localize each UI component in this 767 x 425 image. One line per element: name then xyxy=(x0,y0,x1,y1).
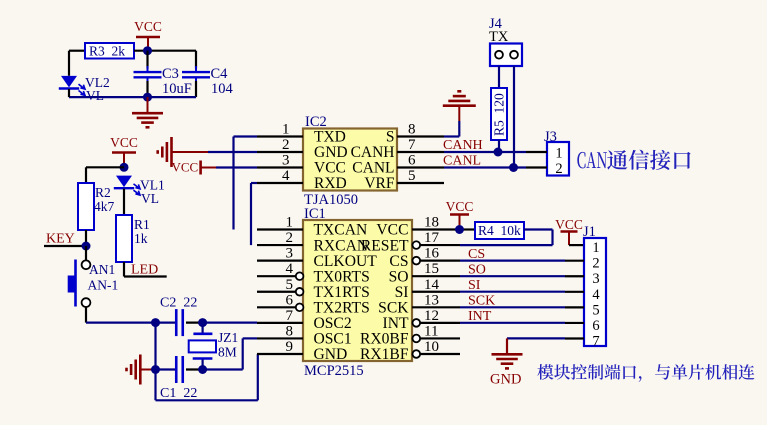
svg-text:INT: INT xyxy=(383,315,409,332)
svg-text:TX2RTS: TX2RTS xyxy=(314,300,370,317)
junction node VL1-VCC xyxy=(120,163,129,172)
wire SI xyxy=(460,291,565,293)
svg-text:RX1BF: RX1BF xyxy=(360,346,409,363)
svg-text:4: 4 xyxy=(286,261,294,277)
ground (top-left) xyxy=(147,97,149,113)
junction node XGND-top xyxy=(151,318,160,327)
svg-text:VCC: VCC xyxy=(172,160,199,175)
svg-text:10uF: 10uF xyxy=(162,81,192,97)
capacitor C2 xyxy=(160,296,197,337)
svg-text:15: 15 xyxy=(424,261,439,277)
wire pin18 xyxy=(460,228,475,230)
svg-text:VCC: VCC xyxy=(555,217,583,232)
svg-text:R1: R1 xyxy=(134,217,150,232)
svg-text:CANH: CANH xyxy=(351,144,395,161)
junction node OSC1 xyxy=(198,365,207,374)
junction node VCC1 xyxy=(143,46,152,55)
wire xyxy=(68,89,70,97)
svg-text:GND: GND xyxy=(490,372,521,388)
power port VCC (IC2) xyxy=(172,160,217,175)
wire xyxy=(216,166,257,168)
wire xyxy=(186,368,203,370)
svg-text:CANL: CANL xyxy=(443,154,481,169)
svg-text:1: 1 xyxy=(555,146,562,162)
wire J1-7 to gnd xyxy=(507,337,565,339)
wire xyxy=(203,322,257,324)
svg-text:6: 6 xyxy=(408,153,416,169)
svg-text:OSC1: OSC1 xyxy=(314,331,352,348)
svg-text:R2: R2 xyxy=(95,185,111,200)
svg-text:IC1: IC1 xyxy=(304,206,326,222)
svg-text:5: 5 xyxy=(286,277,294,293)
wire xyxy=(498,66,500,88)
svg-text:TXD: TXD xyxy=(314,129,346,146)
wire xyxy=(195,51,197,69)
svg-text:C2 22: C2 22 xyxy=(160,296,197,311)
svg-text:4: 4 xyxy=(282,168,290,184)
wire xyxy=(186,322,203,324)
svg-text:1: 1 xyxy=(282,122,290,138)
svg-text:4k7: 4k7 xyxy=(94,199,115,214)
label CAN-interface xyxy=(577,150,690,170)
svg-text:KEY: KEY xyxy=(46,232,75,247)
svg-text:8: 8 xyxy=(408,122,416,138)
svg-text:OSC2: OSC2 xyxy=(314,315,352,332)
svg-text:C4: C4 xyxy=(211,66,229,82)
svg-text:RXD: RXD xyxy=(314,175,347,192)
junction node GND1 xyxy=(143,93,152,102)
svg-text:SO: SO xyxy=(389,268,409,285)
svg-text:7: 7 xyxy=(592,333,599,349)
svg-text:2: 2 xyxy=(282,137,290,153)
wire SO xyxy=(460,275,565,277)
junction node OSC2 xyxy=(198,318,207,327)
svg-text:VCC: VCC xyxy=(376,222,408,239)
wire CS xyxy=(460,260,565,262)
svg-text:S: S xyxy=(386,129,395,146)
ground (crystal) xyxy=(140,369,155,371)
wire xyxy=(195,81,197,97)
resistor R2 xyxy=(78,183,115,230)
wire pin8 xyxy=(444,135,459,137)
svg-text:R3 2k: R3 2k xyxy=(89,44,125,59)
svg-text:10: 10 xyxy=(424,339,439,355)
IC1 pins and numbers xyxy=(257,228,303,230)
svg-text:14: 14 xyxy=(424,277,440,293)
wire INT xyxy=(460,322,565,324)
wire xyxy=(208,151,257,153)
wire xyxy=(86,322,176,324)
svg-text:SCK: SCK xyxy=(378,300,409,317)
svg-text:CANL: CANL xyxy=(352,160,394,177)
svg-text:MCP2515: MCP2515 xyxy=(304,363,364,379)
IC2 pins and numbers xyxy=(257,135,303,137)
svg-text:1: 1 xyxy=(286,215,294,231)
junction node VCC-18 xyxy=(455,225,464,234)
wire CANH xyxy=(444,151,526,153)
wire xyxy=(156,368,177,370)
svg-text:6: 6 xyxy=(286,292,294,308)
junction node XGND-bot xyxy=(151,365,160,374)
ground (IC2 GND pin) xyxy=(172,151,209,153)
svg-text:2: 2 xyxy=(286,230,294,246)
connector J1 xyxy=(565,224,606,349)
junction node CANH xyxy=(494,148,503,157)
wire xyxy=(154,323,156,401)
svg-text:5: 5 xyxy=(592,302,599,318)
svg-text:4: 4 xyxy=(592,287,600,303)
wire xyxy=(146,81,148,97)
wire xyxy=(69,50,85,52)
svg-text:IC2: IC2 xyxy=(305,114,327,130)
resistor R3 xyxy=(85,43,134,59)
svg-text:RX0BF: RX0BF xyxy=(360,331,409,348)
wire xyxy=(203,368,243,370)
connector J4 xyxy=(489,16,522,66)
svg-text:1: 1 xyxy=(592,240,599,256)
svg-text:VCC: VCC xyxy=(134,19,162,34)
svg-text:SI: SI xyxy=(395,284,409,301)
svg-text:7: 7 xyxy=(286,308,294,324)
svg-text:18: 18 xyxy=(424,215,439,231)
wire xyxy=(123,262,125,277)
svg-text:2: 2 xyxy=(592,256,599,272)
svg-text:C1 22: C1 22 xyxy=(160,386,197,401)
svg-text:AN1: AN1 xyxy=(89,262,115,277)
svg-text:17: 17 xyxy=(424,230,440,246)
wire xyxy=(134,50,196,52)
wire xyxy=(86,166,124,168)
junction node KEY xyxy=(82,242,91,251)
svg-text:JZ1: JZ1 xyxy=(218,330,238,345)
svg-text:VCC: VCC xyxy=(110,135,138,150)
svg-text:LED: LED xyxy=(131,263,158,278)
svg-text:5: 5 xyxy=(408,168,416,184)
resistor R1 xyxy=(116,215,150,262)
capacitor C3 xyxy=(134,66,192,97)
ground (pin8 S) xyxy=(458,106,460,121)
svg-text:1k: 1k xyxy=(134,231,148,246)
pushbutton AN1 xyxy=(68,260,118,308)
svg-text:CS: CS xyxy=(389,253,408,270)
svg-text:GND: GND xyxy=(314,144,348,161)
capacitor C4 xyxy=(182,66,234,97)
wire xyxy=(146,51,148,69)
svg-text:104: 104 xyxy=(211,81,234,97)
ground (J1) xyxy=(506,349,508,354)
svg-text:AN-1: AN-1 xyxy=(88,278,119,293)
LED VL2 xyxy=(59,75,110,103)
crystal JZ1 xyxy=(189,323,239,370)
svg-text:2: 2 xyxy=(555,161,562,177)
op-amp U-IC1 body xyxy=(303,206,412,379)
svg-text:C3: C3 xyxy=(162,66,179,82)
wire xyxy=(513,66,515,168)
svg-text:VCC: VCC xyxy=(314,160,346,177)
junction node CANL xyxy=(509,163,518,172)
svg-text:R4 10k: R4 10k xyxy=(478,223,521,238)
svg-text:13: 13 xyxy=(424,292,439,308)
wire xyxy=(69,96,196,98)
wire GND rail xyxy=(156,399,258,401)
svg-text:8M: 8M xyxy=(218,345,237,360)
wire CANL xyxy=(444,166,526,168)
svg-text:VRF: VRF xyxy=(364,175,395,192)
resistor R4 xyxy=(475,222,524,239)
wire SCK xyxy=(460,306,565,308)
LED VL1 xyxy=(114,176,165,206)
svg-text:7: 7 xyxy=(408,137,416,153)
svg-text:3: 3 xyxy=(592,271,599,287)
wire xyxy=(123,189,125,215)
capacitor C1 xyxy=(160,356,197,401)
svg-text:11: 11 xyxy=(424,323,438,339)
wire TXD xyxy=(234,135,258,137)
wire xyxy=(498,140,500,152)
svg-text:3: 3 xyxy=(282,153,290,169)
svg-text:VL: VL xyxy=(141,191,159,206)
wire KEY xyxy=(44,245,86,247)
wire xyxy=(85,230,87,246)
wire R4-RESET xyxy=(524,228,553,230)
svg-text:12: 12 xyxy=(424,308,439,324)
label module-port xyxy=(537,364,754,382)
svg-text:VCC: VCC xyxy=(446,199,474,214)
svg-text:CLKOUT: CLKOUT xyxy=(314,253,378,270)
svg-text:TXCAN: TXCAN xyxy=(314,222,368,239)
op-amp U-IC2 body xyxy=(303,114,397,208)
wire RXD xyxy=(251,182,257,184)
connector J3 xyxy=(526,129,569,177)
wire xyxy=(569,244,584,246)
svg-text:CANH: CANH xyxy=(443,138,483,153)
wire xyxy=(85,167,87,183)
svg-text:9: 9 xyxy=(286,339,294,355)
wire xyxy=(85,246,87,260)
resistor R5 xyxy=(491,88,507,140)
svg-text:TX1RTS: TX1RTS xyxy=(314,284,370,301)
svg-text:TX0RTS: TX0RTS xyxy=(314,268,370,285)
wire xyxy=(68,51,70,76)
svg-text:3: 3 xyxy=(286,246,294,262)
svg-text:R5 120: R5 120 xyxy=(492,93,507,136)
svg-text:6: 6 xyxy=(592,318,599,334)
wire xyxy=(85,307,87,323)
svg-text:RESET: RESET xyxy=(361,237,409,254)
svg-text:GND: GND xyxy=(314,346,348,363)
svg-text:8: 8 xyxy=(286,323,294,339)
svg-text:16: 16 xyxy=(424,246,440,262)
svg-text:VL: VL xyxy=(86,88,104,103)
